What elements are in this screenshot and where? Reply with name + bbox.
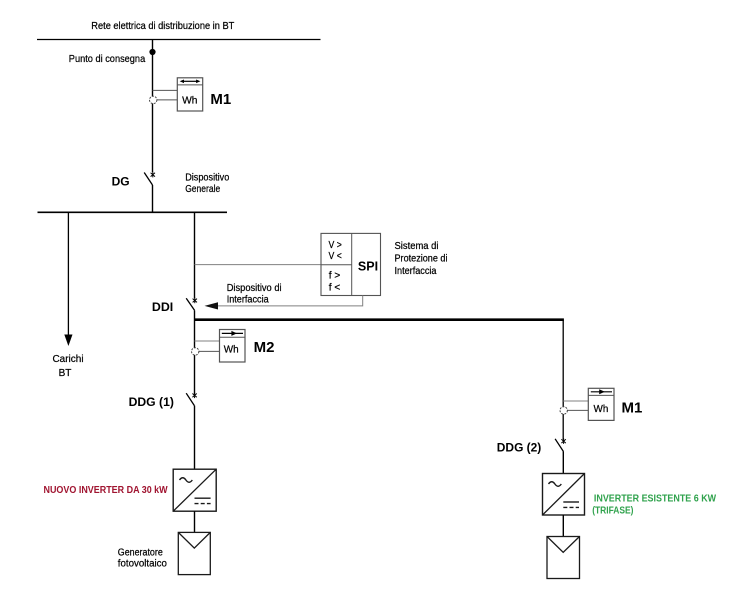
svg-text:DDI: DDI — [152, 300, 173, 314]
svg-text:M1: M1 — [210, 91, 231, 108]
svg-text:M1: M1 — [622, 399, 643, 416]
svg-text:Sistema di: Sistema di — [395, 241, 439, 252]
svg-text:f <: f < — [329, 283, 341, 294]
svg-text:Dispositivo di: Dispositivo di — [227, 283, 282, 294]
svg-text:Protezione di: Protezione di — [395, 254, 448, 265]
svg-text:Carichi: Carichi — [52, 354, 83, 365]
svg-text:Wh: Wh — [594, 403, 609, 415]
svg-text:INVERTER ESISTENTE 6 KW: INVERTER ESISTENTE 6 KW — [594, 493, 717, 504]
svg-text:SPI: SPI — [358, 260, 378, 274]
svg-text:BT: BT — [59, 368, 72, 379]
svg-text:Interfaccia: Interfaccia — [395, 266, 437, 277]
svg-text:V >: V > — [329, 240, 342, 251]
svg-text:DDG (1): DDG (1) — [129, 395, 174, 409]
svg-text:NUOVO INVERTER DA 30 kW: NUOVO INVERTER DA 30 kW — [44, 485, 169, 496]
svg-text:(TRIFASE): (TRIFASE) — [592, 505, 633, 516]
svg-text:Generale: Generale — [185, 184, 220, 195]
svg-text:Wh: Wh — [182, 94, 198, 106]
svg-text:Punto di consegna: Punto di consegna — [69, 54, 146, 65]
svg-text:V <: V < — [329, 251, 342, 262]
svg-text:DDG (2): DDG (2) — [497, 441, 542, 455]
svg-text:Wh: Wh — [224, 344, 239, 356]
svg-text:fotovoltaico: fotovoltaico — [118, 559, 168, 570]
svg-text:Generatore: Generatore — [118, 548, 163, 559]
svg-text:DG: DG — [112, 175, 130, 189]
svg-text:M2: M2 — [254, 339, 275, 356]
svg-text:Dispositivo: Dispositivo — [185, 173, 229, 184]
svg-text:Rete elettrica di distribuzion: Rete elettrica di distribuzione in BT — [91, 21, 234, 32]
svg-text:f >: f > — [329, 271, 341, 282]
svg-text:Interfaccia: Interfaccia — [227, 294, 269, 305]
